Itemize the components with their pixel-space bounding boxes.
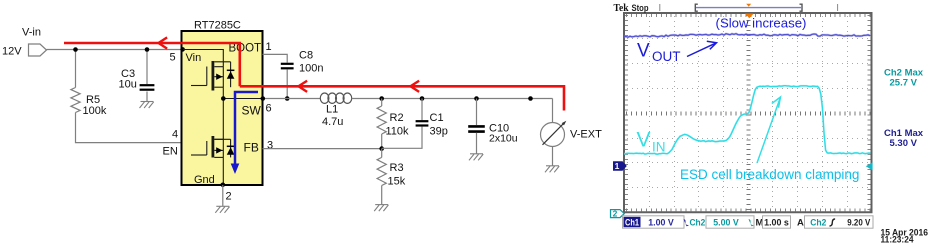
capacitor C10 — [468, 126, 485, 131]
svg-text:A: A — [797, 217, 804, 228]
svg-text:Stop: Stop — [632, 3, 649, 13]
graticule border ticks — [626, 15, 871, 211]
svg-text:100n: 100n — [299, 63, 323, 75]
trace Ch1 V_OUT — [624, 34, 870, 38]
junction FB/R2/R3 — [379, 146, 384, 151]
trace Ch2 V_IN — [624, 86, 870, 154]
svg-text:25.7 V: 25.7 V — [890, 78, 918, 89]
svg-text:Ch1: Ch1 — [625, 217, 639, 227]
svg-text:5: 5 — [170, 52, 176, 64]
wire R3 top lead — [381, 149, 383, 158]
svg-text:100k: 100k — [83, 105, 107, 117]
wire L1 to output rail — [352, 98, 553, 100]
probe icon Ch2 — [749, 219, 755, 226]
wire C3 bottom — [146, 92, 148, 102]
svg-text:1: 1 — [266, 41, 272, 53]
svg-text:V-EXT: V-EXT — [570, 129, 602, 141]
wire FB — [263, 148, 382, 150]
wire Q2 source to Gnd — [222, 157, 224, 185]
ground V-EXT — [545, 166, 559, 173]
svg-text:IN: IN — [652, 140, 666, 155]
wire R2 bottom lead — [381, 134, 383, 149]
probe icon Ch1 — [684, 219, 690, 226]
ground C10 — [469, 154, 483, 161]
svg-text:15k: 15k — [388, 176, 406, 188]
svg-text:12V: 12V — [2, 46, 22, 58]
ground chip pin 2 — [215, 206, 229, 213]
svg-text:9.20 V: 9.20 V — [847, 217, 871, 228]
wire C1 top lead — [421, 99, 423, 121]
svg-text:2: 2 — [613, 209, 618, 219]
svg-text:2: 2 — [226, 191, 232, 203]
channel 1 ground marker — [613, 161, 627, 170]
record view trigger marker — [746, 4, 751, 7]
annotation V_OUT arrow — [687, 41, 717, 56]
red arrow near R2 — [411, 81, 420, 92]
junction R2 top — [379, 96, 384, 101]
wire input rail — [47, 49, 184, 51]
svg-text:1: 1 — [615, 161, 620, 171]
wire C1 bottom to FB junction — [382, 127, 422, 149]
resistor R3 — [377, 157, 386, 185]
trigger position marker — [745, 14, 754, 19]
wire R2 top lead — [381, 99, 383, 107]
svg-text:Gnd: Gnd — [194, 174, 215, 186]
svg-text:39p: 39p — [430, 126, 448, 138]
red arrow on input rail — [159, 37, 168, 48]
red arrow near C8 — [299, 81, 308, 92]
svg-text:4: 4 — [172, 129, 178, 141]
record view window bracket — [695, 4, 698, 11]
ground C3 — [140, 102, 154, 109]
wire C10 bottom lead — [476, 133, 478, 154]
junction internal SW — [221, 96, 226, 101]
svg-text:C1: C1 — [430, 112, 444, 124]
svg-text:5.00 V: 5.00 V — [713, 217, 739, 228]
capacitor C3 — [140, 85, 155, 90]
graticule grid dots — [626, 15, 871, 211]
svg-text:Ch2: Ch2 — [690, 217, 706, 228]
junction C10 top — [474, 96, 479, 101]
op-chip U1 RT7285C body — [182, 31, 263, 185]
junction V-EXT branch — [528, 96, 533, 101]
capacitor C1 — [416, 121, 429, 125]
svg-text:ESD cell breakdown clamping: ESD cell breakdown clamping — [680, 167, 859, 182]
svg-text:R2: R2 — [390, 112, 404, 124]
wire V-EXT top lead — [552, 99, 554, 123]
svg-text:1.00 s: 1.00 s — [764, 217, 789, 228]
trigger level arrow — [866, 162, 873, 170]
svg-text:5.30 V: 5.30 V — [890, 138, 918, 149]
wire C10 top lead — [476, 99, 478, 126]
wire SW to L1 — [263, 98, 321, 100]
svg-text:4.7u: 4.7u — [322, 116, 343, 128]
svg-text:110k: 110k — [386, 126, 410, 138]
wire V-EXT bottom lead — [552, 147, 554, 166]
readout box Ch1 scale — [623, 216, 685, 228]
svg-text:Ch2: Ch2 — [810, 217, 826, 228]
svg-text:Tek: Tek — [614, 3, 629, 14]
red current path from input to chip — [64, 43, 240, 86]
oscilloscope graticule frame — [624, 13, 872, 212]
record view end ticks — [659, 4, 661, 11]
svg-text:R3: R3 — [390, 162, 404, 174]
wire BOOT to C8 — [263, 54, 288, 62]
svg-text:6: 6 — [266, 103, 272, 115]
svg-text:OUT: OUT — [652, 49, 681, 64]
junction Gnd pin — [221, 183, 226, 188]
wire C3 top — [146, 50, 148, 85]
annotation ESD arrow — [757, 97, 781, 163]
svg-text:2x10u: 2x10u — [489, 133, 518, 145]
wire R3 bottom lead — [381, 186, 383, 205]
svg-text:(Slow increase): (Slow increase) — [716, 16, 807, 31]
rising edge icon — [830, 219, 836, 226]
resistor R2 — [377, 106, 386, 134]
svg-text:FB: FB — [244, 141, 259, 155]
junction C8/SW — [285, 96, 290, 101]
channel 2 ground marker — [611, 210, 625, 218]
wire Gnd pin 2 — [222, 185, 224, 206]
source V-EXT symbol — [541, 123, 565, 147]
svg-text:1.00 V: 1.00 V — [648, 217, 674, 228]
junction input/C3 — [145, 47, 150, 52]
junction SW pin — [261, 96, 266, 101]
svg-text:C8: C8 — [299, 50, 313, 62]
junction C1 top — [420, 96, 425, 101]
red current path V-EXT to SW — [240, 86, 564, 110]
svg-text:10u: 10u — [119, 79, 137, 91]
svg-text:V: V — [637, 129, 651, 152]
graticule center tick lines — [626, 15, 871, 211]
transistor Q2 low-side MOSFET — [191, 136, 231, 158]
wire SW internal node — [222, 87, 224, 139]
wire Vin internal rail — [183, 50, 223, 67]
svg-text:RT7285C: RT7285C — [194, 20, 241, 32]
svg-text:11:23:24: 11:23:24 — [881, 234, 915, 244]
svg-text:EN: EN — [163, 146, 178, 158]
svg-text:Vin: Vin — [186, 52, 202, 64]
wire R5 top — [75, 50, 77, 88]
svg-text:V-in: V-in — [22, 27, 41, 39]
junction input/R5 — [73, 47, 78, 52]
junction Vin pin — [180, 47, 185, 52]
input port connector — [29, 44, 47, 56]
inductor L1 — [320, 93, 351, 103]
resistor R5 — [71, 88, 80, 113]
wire C8 to SW — [286, 70, 288, 99]
wire R5 to EN — [76, 113, 182, 143]
blue current path SW through Q2 — [235, 92, 258, 165]
svg-text:V: V — [637, 40, 650, 61]
capacitor C8 — [281, 64, 294, 69]
transistor Q1 high-side MOSFET — [191, 61, 231, 91]
svg-text:L1: L1 — [326, 104, 338, 116]
svg-text:3: 3 — [267, 140, 273, 152]
ground R3 — [374, 205, 388, 212]
svg-text:SW: SW — [242, 104, 262, 118]
